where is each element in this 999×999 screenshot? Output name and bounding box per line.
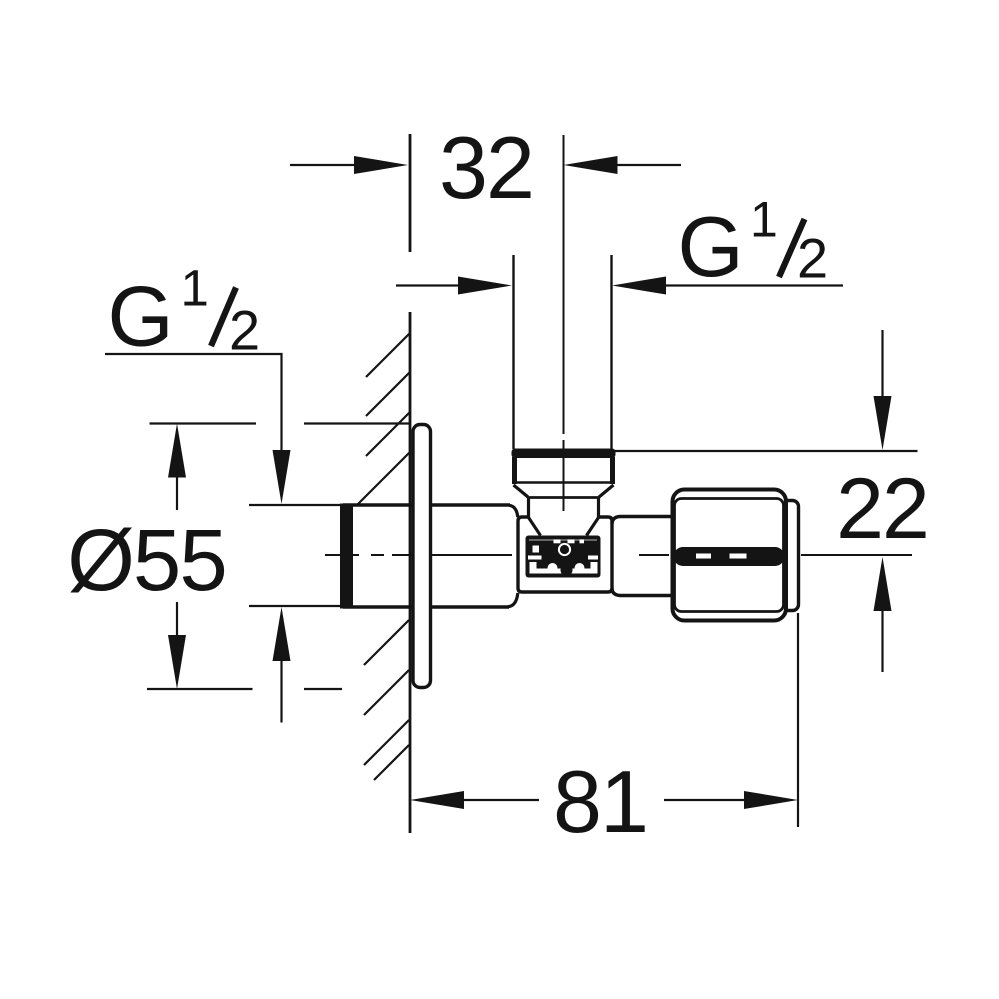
outlet nut body	[515, 457, 613, 484]
funnel to cartridge	[529, 518, 599, 536]
dimension 22 upper stem	[881, 330, 883, 402]
dimension G1/2 left text	[108, 260, 261, 365]
dimension D55 upper stem	[176, 474, 178, 510]
dimension G1/2 right line left	[396, 284, 460, 286]
cartridge white details	[528, 539, 598, 573]
svg-text:2: 2	[229, 299, 260, 362]
dimension G1/2 left arrow down	[273, 450, 291, 504]
dimension G1/2 left lower stem	[280, 657, 282, 723]
escutcheon plate	[413, 425, 431, 688]
dimension 81 line left	[461, 799, 539, 801]
dimension 22 arrow up	[874, 557, 892, 611]
dimension 22 arrow down	[874, 396, 892, 450]
svg-text:G: G	[108, 270, 174, 365]
dimension 32 line left	[290, 164, 357, 166]
svg-text:G: G	[678, 200, 744, 295]
wall hatching lower	[364, 620, 409, 780]
dimension G1/2 right arrow right	[612, 277, 666, 295]
dimension 81 line right	[664, 799, 746, 801]
inlet pipe end cap	[340, 504, 353, 609]
inlet pipe to block corner curves	[508, 505, 518, 606]
dimension 32 arrow left	[354, 156, 408, 174]
outlet neck	[529, 498, 599, 519]
handle slot center-line dashes (white)	[696, 554, 711, 559]
wall hatching upper	[357, 333, 410, 505]
dimension D55 arrow down	[168, 635, 186, 689]
center line vertical (outlet axis)	[563, 135, 565, 511]
dimension G1/2 right fraction slash	[779, 219, 805, 277]
extension line pipe top (G1/2 left)	[249, 504, 343, 506]
handle inner face lines	[675, 499, 784, 612]
svg-text:2: 2	[797, 227, 828, 290]
outlet thread extension lines	[514, 255, 612, 449]
inlet pipe through wall	[343, 505, 510, 607]
svg-text:1: 1	[750, 192, 778, 248]
extension line pipe bottom (G1/2 left)	[249, 605, 343, 607]
outlet barrel right	[612, 517, 674, 596]
dimension 81 arrow right	[744, 791, 798, 809]
dimension 32 line right	[614, 164, 681, 166]
handle slot	[674, 547, 785, 566]
dimension D55 lower stem	[176, 602, 178, 639]
svg-text:1: 1	[181, 260, 209, 317]
cartridge box	[526, 536, 601, 578]
dimension D55 arrow up	[168, 424, 186, 478]
outlet cone shoulder	[527, 496, 600, 499]
center line horizontal (valve axis)	[325, 554, 912, 556]
extension line nut top plane	[609, 450, 918, 452]
outlet cone chamfers	[514, 485, 614, 497]
handle back ring	[777, 501, 799, 611]
dimension G1/2 right arrow left	[458, 277, 512, 295]
svg-text:Ø55: Ø55	[67, 512, 225, 609]
handle front cap	[673, 490, 787, 621]
dimension 32 arrow right	[564, 156, 618, 174]
valve central block	[518, 517, 612, 592]
extension line 81 right	[797, 613, 799, 827]
svg-text:81: 81	[553, 752, 647, 851]
dimension G1/2 right line right	[663, 284, 843, 286]
extension line escutcheon bottom	[147, 688, 342, 690]
dimension G1/2 left arrow up	[273, 607, 291, 661]
svg-text:22: 22	[836, 461, 928, 557]
svg-text:32: 32	[439, 118, 533, 217]
dimension G1/2 left fraction slash	[211, 288, 236, 347]
dimension G1/2 right text	[678, 192, 829, 296]
dimension G1/2 left leader	[105, 354, 282, 456]
dimension 81 arrow left	[410, 791, 464, 809]
outlet nut top bar	[512, 449, 616, 459]
dimension 22 lower stem	[881, 607, 883, 672]
extension line escutcheon top	[150, 422, 412, 424]
wall line	[409, 134, 412, 833]
